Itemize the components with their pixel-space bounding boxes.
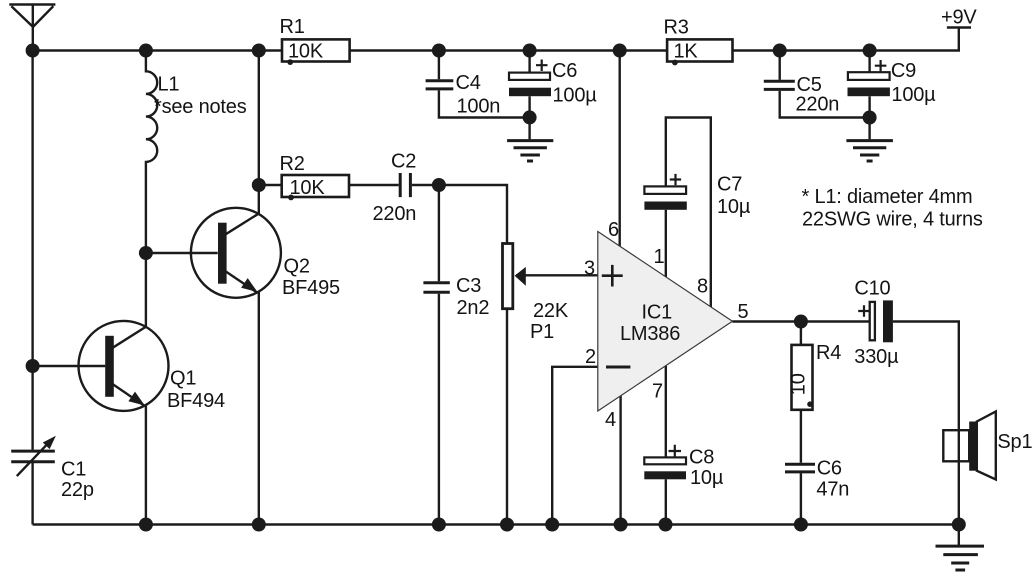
wire pin1 xyxy=(665,210,667,280)
junction node R2 left xyxy=(252,178,266,192)
svg-text:BF494: BF494 xyxy=(167,390,225,412)
junction node C2 right xyxy=(432,178,446,192)
wire top rail left xyxy=(33,49,282,51)
wire bottom rail xyxy=(33,523,959,525)
wire output pin5 xyxy=(732,320,869,322)
svg-text:330µ: 330µ xyxy=(854,346,899,368)
wire R4 column xyxy=(800,322,802,525)
svg-text:C5: C5 xyxy=(797,74,822,96)
svg-text:2n2: 2n2 xyxy=(457,297,490,319)
wire pin6 column xyxy=(619,51,621,251)
wire node to P1 top xyxy=(439,185,507,244)
svg-text:100µ: 100µ xyxy=(891,84,936,106)
junction node rail C3 xyxy=(432,518,446,532)
wire Q1 emitter to bottom rail xyxy=(145,405,147,525)
wire L1 to Q1 collector xyxy=(145,253,147,327)
junction node C6 top xyxy=(523,44,537,58)
svg-text:4: 4 xyxy=(605,409,616,431)
wire pin7 / C8 column xyxy=(665,362,667,525)
resistor R2 xyxy=(282,175,349,197)
svg-text:+9V: +9V xyxy=(941,7,977,29)
capacitor C6 (47n) xyxy=(785,464,815,472)
svg-text:C6: C6 xyxy=(817,457,842,479)
wire C10 to speaker xyxy=(893,322,959,525)
svg-text:6: 6 xyxy=(608,219,619,241)
P1 wiper arrow xyxy=(515,267,526,286)
svg-text:100n: 100n xyxy=(457,95,501,117)
svg-text:220n: 220n xyxy=(796,94,840,116)
svg-text:7: 7 xyxy=(652,380,663,402)
svg-text:22p: 22p xyxy=(61,479,94,501)
svg-text:2: 2 xyxy=(585,346,596,368)
wire C7 loop xyxy=(666,118,711,311)
junction node rail Q2 xyxy=(252,518,266,532)
junction node rail pin2 xyxy=(545,518,559,532)
Q2 base wire xyxy=(146,252,218,254)
svg-text:100µ: 100µ xyxy=(553,85,598,107)
svg-text:22SWG wire, 4 turns: 22SWG wire, 4 turns xyxy=(802,209,983,231)
ground under C9 xyxy=(846,141,893,161)
svg-text:1: 1 xyxy=(654,246,665,268)
capacitor C10 right plate xyxy=(883,300,893,342)
junction node output xyxy=(794,315,808,329)
transistor Q2 xyxy=(191,208,281,298)
svg-text:C7: C7 xyxy=(717,173,742,195)
transistor Q1 xyxy=(79,321,169,411)
P1 wiper wire (pin 3) xyxy=(516,274,599,276)
svg-text:*see notes: *see notes xyxy=(154,96,247,118)
svg-text:C4: C4 xyxy=(456,72,481,94)
+9V terminal xyxy=(947,26,971,28)
IC1 plus input symbol xyxy=(602,265,623,287)
capacitor C5 xyxy=(764,81,795,89)
capacitor C6 plus xyxy=(536,60,548,72)
inductor L1 xyxy=(146,51,157,254)
svg-text:220n: 220n xyxy=(373,203,417,225)
svg-text:C1: C1 xyxy=(61,459,86,481)
svg-text:R1: R1 xyxy=(280,16,305,38)
junction node C6 bottom xyxy=(523,110,537,124)
svg-text:3: 3 xyxy=(584,258,595,280)
wire top rail right xyxy=(733,28,959,51)
antenna xyxy=(9,5,55,51)
junction node C9 top xyxy=(863,44,877,58)
wire Q2 collector column xyxy=(258,51,260,215)
resistor R4 xyxy=(792,345,813,410)
junction node L1 top xyxy=(139,44,153,58)
R4 pin dot xyxy=(807,401,813,407)
svg-text:C9: C9 xyxy=(891,60,916,82)
junction node Q1 base xyxy=(26,359,40,373)
capacitor C4 xyxy=(426,81,454,89)
wire top rail middle xyxy=(350,49,667,51)
svg-text:* L1: diameter 4mm: * L1: diameter 4mm xyxy=(802,186,973,208)
svg-text:10µ: 10µ xyxy=(717,196,751,218)
junction node rail Q1 xyxy=(139,518,153,532)
junction node rail pin4 xyxy=(614,518,628,532)
svg-text:R4: R4 xyxy=(816,342,841,364)
capacitor C8 plus xyxy=(669,445,682,457)
P1 bottom leg xyxy=(506,309,508,525)
junction node C9 bottom xyxy=(863,111,877,125)
svg-text:LM386: LM386 xyxy=(620,323,680,345)
capacitor C7 bottom plate xyxy=(644,202,686,210)
junction node Q2 column top xyxy=(252,44,266,58)
speaker Sp1 xyxy=(943,412,996,480)
svg-text:Sp1: Sp1 xyxy=(997,431,1032,453)
wire pin2 xyxy=(552,367,599,525)
svg-text:Q2: Q2 xyxy=(284,255,310,277)
IC1 minus input symbol xyxy=(606,366,630,369)
capacitor C8 bottom plate xyxy=(644,471,686,479)
svg-text:C10: C10 xyxy=(854,278,890,300)
svg-text:C6: C6 xyxy=(552,60,577,82)
capacitor C9 column wire xyxy=(868,51,870,140)
wire C3 column xyxy=(438,185,440,525)
wire left edge xyxy=(31,51,33,525)
potentiometer P1 xyxy=(503,244,513,309)
junction node rail R4 xyxy=(794,518,808,532)
capacitor C5 column wire xyxy=(780,51,870,118)
svg-text:10K: 10K xyxy=(290,177,326,199)
svg-text:C3: C3 xyxy=(456,275,481,297)
capacitor C7 top plate xyxy=(644,186,686,194)
svg-text:IC1: IC1 xyxy=(642,301,673,323)
junction node pin6 top xyxy=(613,44,627,58)
svg-text:C8: C8 xyxy=(689,447,714,469)
svg-text:8: 8 xyxy=(697,275,708,297)
capacitor C10 plus xyxy=(858,305,869,316)
junction node antenna xyxy=(26,44,40,58)
svg-text:Q1: Q1 xyxy=(170,368,196,390)
svg-text:BF495: BF495 xyxy=(282,277,340,299)
op-amp IC1 triangle xyxy=(598,232,733,412)
capacitor C1 (variable) xyxy=(11,436,56,476)
capacitor C9 plus xyxy=(875,60,887,71)
svg-text:R2: R2 xyxy=(280,153,305,175)
resistor R1 xyxy=(282,39,350,61)
junction node rail speaker xyxy=(952,518,966,532)
svg-text:1K: 1K xyxy=(674,41,699,63)
svg-text:L1: L1 xyxy=(158,73,180,95)
junction node Q2 base xyxy=(139,246,153,260)
Q1 base wire xyxy=(33,365,106,367)
svg-text:10µ: 10µ xyxy=(690,467,724,489)
wire Q2 emitter to bottom rail xyxy=(258,292,260,525)
junction node C5 top xyxy=(773,44,787,58)
capacitor C2 xyxy=(400,173,410,197)
wire pin4 xyxy=(619,393,621,525)
svg-text:47n: 47n xyxy=(816,479,849,501)
resistor R3 xyxy=(667,39,732,61)
svg-text:R3: R3 xyxy=(664,17,689,39)
capacitor C9 top plate xyxy=(848,72,890,80)
svg-text:10: 10 xyxy=(788,373,810,395)
capacitor C4 column wire xyxy=(439,51,530,118)
svg-text:5: 5 xyxy=(738,301,749,323)
capacitor C9 bottom plate xyxy=(848,88,890,97)
capacitor C8 top plate xyxy=(644,457,686,464)
capacitor C3 xyxy=(423,283,449,293)
R1 pin dot xyxy=(287,59,293,65)
capacitor C6 top plate xyxy=(509,73,550,80)
svg-text:P1: P1 xyxy=(530,321,554,343)
svg-text:C2: C2 xyxy=(391,151,416,173)
R3 pin dot xyxy=(672,60,678,66)
capacitor C6 (100u) column wire xyxy=(528,51,530,140)
svg-text:10K: 10K xyxy=(288,41,324,63)
wire C2 to node xyxy=(412,184,439,186)
capacitor C6 bottom plate xyxy=(509,88,551,97)
R2 pin dot xyxy=(288,195,294,201)
wire R2 left xyxy=(259,184,282,186)
ground under C6 xyxy=(507,141,553,161)
junction node C4 top xyxy=(432,44,446,58)
capacitor C7 plus xyxy=(670,174,681,185)
wire speaker ground stub xyxy=(958,525,960,547)
wire R2 to C2 xyxy=(349,184,399,186)
junction node rail C8 xyxy=(659,518,673,532)
svg-text:22K: 22K xyxy=(533,300,569,322)
junction node rail P1 xyxy=(500,518,514,532)
ground bottom right xyxy=(936,546,985,570)
capacitor C10 left plate xyxy=(870,302,875,340)
